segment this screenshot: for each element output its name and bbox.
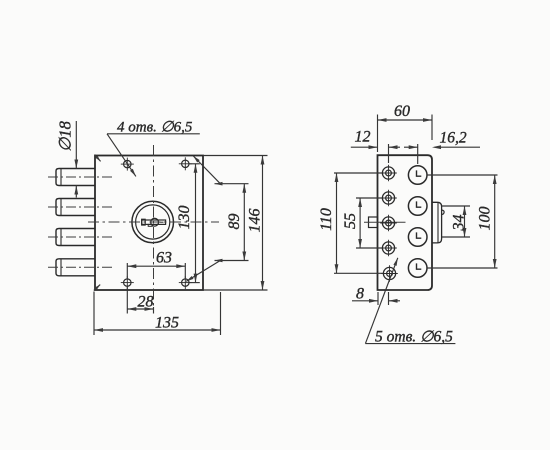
fixing hole 5 bbox=[381, 265, 398, 282]
bottom-left corner tick arrow bbox=[94, 285, 100, 291]
bolt 2 (deadbolt cylinder) bbox=[56, 199, 95, 216]
svg-text:130: 130 bbox=[176, 206, 193, 230]
dimension 16.2 bbox=[404, 144, 480, 164]
bolt 4 (deadbolt cylinder) bbox=[56, 259, 95, 276]
dimension 12 text bbox=[355, 129, 371, 146]
dimension 130 extension lines bbox=[190, 164, 200, 283]
key spindle boss bbox=[369, 217, 378, 228]
svg-text:110: 110 bbox=[318, 208, 335, 231]
label 5 holes dia 6.5 bbox=[375, 328, 453, 345]
bolt end circle 4 bbox=[408, 259, 427, 278]
svg-text:5 отв. ∅6,5: 5 отв. ∅6,5 bbox=[375, 328, 453, 345]
svg-text:16,2: 16,2 bbox=[439, 130, 466, 147]
dimension 55 extension lines bbox=[356, 198, 382, 248]
svg-text:∅18: ∅18 bbox=[56, 120, 75, 152]
svg-text:28: 28 bbox=[138, 294, 154, 311]
dimension 34 bbox=[451, 206, 468, 237]
bolt end circle 3 bbox=[408, 228, 427, 247]
faceplate (side view) bbox=[378, 155, 433, 290]
svg-text:8: 8 bbox=[356, 286, 364, 303]
dimension 89 bbox=[226, 184, 246, 261]
bolt end circle 2 bbox=[408, 197, 427, 216]
bolt 1 (deadbolt cylinder) bbox=[56, 169, 95, 186]
leader line for 5 holes bbox=[365, 258, 455, 344]
dimension 110 extension lines bbox=[334, 173, 383, 273]
fixing hole 3 bbox=[380, 215, 397, 232]
mounting hole bottom-right bbox=[179, 276, 192, 289]
bolt 1 centerline bbox=[48, 176, 112, 178]
svg-text:55: 55 bbox=[342, 213, 359, 229]
body vertical centerline bbox=[153, 145, 155, 307]
dimension 63 bbox=[127, 250, 185, 269]
dimension 130 bbox=[176, 164, 197, 283]
dimension 12 bbox=[351, 144, 400, 163]
top-left corner tick arrow bbox=[95, 155, 101, 162]
svg-text:135: 135 bbox=[155, 315, 179, 332]
mounting hole bottom-left bbox=[121, 276, 134, 289]
dimension 63 extension lines bbox=[127, 263, 185, 279]
bolt 4 centerline bbox=[48, 266, 112, 268]
mounting hole top-right bbox=[179, 157, 192, 170]
dimension 28 bbox=[127, 294, 153, 311]
dimension 55 bbox=[342, 198, 362, 248]
dimension d18 text bbox=[56, 120, 75, 152]
dimension 146 bbox=[247, 156, 265, 291]
dimension 16.2 text bbox=[439, 130, 466, 147]
svg-text:4 отв. ∅6,5: 4 отв. ∅6,5 bbox=[117, 119, 193, 135]
bolt 3 centerline bbox=[48, 236, 112, 238]
dimension 8 extension lines bbox=[378, 292, 389, 305]
fixing hole 4 bbox=[380, 240, 397, 257]
fixing hole 2 bbox=[380, 190, 397, 207]
bolt 3 (deadbolt cylinder) bbox=[56, 229, 95, 246]
svg-text:12: 12 bbox=[355, 129, 371, 146]
dimension d18 lines bbox=[74, 121, 78, 198]
svg-text:89: 89 bbox=[226, 214, 243, 230]
svg-text:146: 146 bbox=[247, 209, 264, 233]
keyhole inner circle bbox=[136, 205, 170, 239]
svg-text:34: 34 bbox=[451, 215, 468, 232]
svg-text:63: 63 bbox=[156, 250, 172, 267]
svg-text:100: 100 bbox=[477, 207, 494, 231]
dimension 110 bbox=[318, 173, 338, 273]
dimension 34 extension lines bbox=[442, 206, 470, 237]
dimension 8 bbox=[352, 286, 400, 303]
lock body (front view) bbox=[95, 156, 203, 291]
dimension 89 bent extension bottom bbox=[186, 259, 248, 282]
dimension 100 bbox=[477, 175, 497, 268]
fixing hole 1 bbox=[380, 165, 397, 182]
key axis centerline bbox=[364, 221, 406, 223]
leader line for 4 holes bbox=[107, 134, 200, 177]
key slot profile bbox=[142, 218, 166, 226]
dimension 89 bent extension top bbox=[193, 156, 248, 186]
dimension 135 extension lines bbox=[94, 292, 221, 336]
dimension 146 extension lines bbox=[203, 156, 268, 291]
keyhole outer circle bbox=[132, 201, 174, 243]
dimension 60 extension lines bbox=[378, 115, 433, 153]
dimension 100 extension lines bbox=[427, 175, 498, 268]
dimension 28 extension lines bbox=[127, 287, 153, 314]
dimension 135 bbox=[94, 315, 221, 332]
bolt end circle 1 bbox=[408, 166, 427, 185]
label 4 holes dia 6.5 bbox=[117, 119, 193, 135]
dimension 60 bbox=[378, 103, 433, 122]
svg-text:60: 60 bbox=[394, 103, 410, 120]
bolt 2 centerline bbox=[48, 206, 112, 208]
latch protrusion on right edge bbox=[432, 202, 444, 243]
body horizontal centerline bbox=[88, 221, 219, 223]
mounting hole top-left bbox=[121, 158, 134, 171]
